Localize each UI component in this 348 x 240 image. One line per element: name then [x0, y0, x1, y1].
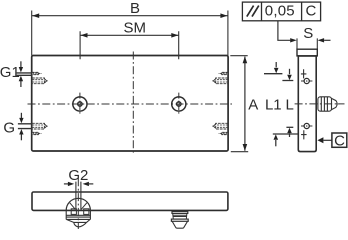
big pin right-bottom	[212, 123, 228, 129]
bottom view centerline	[77, 178, 79, 229]
big snap foot collar	[66, 210, 90, 219]
svg-text:S: S	[303, 25, 313, 42]
datum C triangle	[317, 137, 323, 143]
big snap foot cap	[67, 220, 90, 227]
dimension A line	[244, 57, 246, 151]
big snap foot right hook	[84, 209, 89, 215]
small foot cap	[172, 221, 187, 228]
vertical centerline	[132, 52, 134, 154]
small foot body	[173, 213, 187, 219]
dimension G2 right arrow	[89, 183, 94, 185]
small pin right-bottom	[219, 132, 228, 135]
side plug cone tip	[332, 98, 338, 109]
small foot flange	[172, 212, 188, 214]
svg-text:L1: L1	[265, 97, 282, 114]
side view top cap	[297, 49, 317, 56]
bottom view plate	[32, 192, 228, 210]
hole H2 centermark	[178, 93, 180, 116]
dimension G arrow up	[20, 134, 22, 140]
dimension G2 extension lines	[76, 182, 81, 210]
dimension S right arrow	[324, 39, 330, 41]
dimension L1 bottom arrow	[275, 140, 277, 146]
dimension L top arrow	[289, 69, 291, 74]
dimension B extension lines	[32, 11, 228, 56]
svg-text:B: B	[130, 0, 140, 17]
svg-text:0,05: 0,05	[265, 2, 295, 19]
side view centerline	[295, 103, 345, 105]
side view body	[298, 56, 316, 152]
front view plate outline	[32, 56, 228, 152]
svg-text:G1: G1	[0, 64, 20, 81]
horizontal centerline	[28, 103, 233, 105]
side view upper pin cross	[301, 69, 307, 78]
dimension B line	[32, 15, 228, 17]
dimension L top line	[282, 80, 293, 82]
big pin left-top	[32, 78, 48, 84]
dimension L1 top arrow	[275, 62, 277, 67]
dimension G gauge lines	[18, 124, 32, 129]
dimension SM extension lines	[80, 31, 179, 59]
big snap foot left hook	[71, 209, 76, 215]
big pin right-top	[212, 78, 228, 84]
dimension L bottom arrow	[289, 133, 291, 137]
datum C box	[332, 133, 347, 147]
svg-text:G: G	[3, 119, 15, 136]
svg-text:A: A	[248, 97, 258, 114]
svg-text:SM: SM	[123, 19, 146, 36]
dimension SM line	[80, 34, 178, 36]
side plug barrel	[318, 97, 332, 111]
dimension SM arrow left	[81, 33, 88, 38]
dimension G1 gauge lines	[17, 73, 32, 75]
dimension B arrow right	[220, 13, 227, 18]
side view lower hole	[301, 123, 312, 128]
hole H1	[73, 97, 87, 111]
parallelism symbol	[247, 6, 259, 17]
dimension B arrow left	[32, 13, 39, 18]
big snap foot dome	[66, 198, 90, 210]
small pin left-top	[32, 72, 41, 75]
dimension S extension lines	[297, 38, 317, 49]
dimension L1 bottom line	[273, 133, 299, 135]
svg-text:L: L	[286, 97, 294, 114]
svg-text:C: C	[305, 2, 316, 19]
dimension L bottom line	[286, 126, 293, 128]
side view lower pin cross	[301, 130, 307, 139]
svg-text:C: C	[334, 133, 345, 150]
dimension A extension lines	[230, 56, 248, 152]
tolerance frame leader	[278, 21, 291, 41]
datum C leader	[323, 139, 332, 141]
dimension G arrow down	[20, 113, 22, 118]
dimension G2 left arrow	[64, 183, 68, 185]
small pin right-top	[219, 72, 228, 75]
dimension G1 arrow up	[20, 81, 22, 87]
dimension A arrow bottom	[243, 144, 248, 151]
dimension G1 arrow down	[20, 61, 22, 67]
dimension L1 top line	[264, 73, 282, 75]
big snap foot diagonals	[70, 203, 87, 209]
hole H2	[172, 97, 186, 111]
dimension A arrow top	[243, 56, 248, 63]
big pin left-bottom	[32, 123, 48, 129]
small foot collar	[171, 219, 188, 221]
hole H1 centermark	[79, 93, 81, 116]
small pin left-bottom	[32, 132, 41, 135]
dimension SM arrow right	[171, 33, 178, 38]
dimension S left arrow (shared with leader)	[290, 38, 297, 42]
side view upper hole	[301, 78, 312, 83]
parallelism tolerance frame	[242, 2, 320, 21]
